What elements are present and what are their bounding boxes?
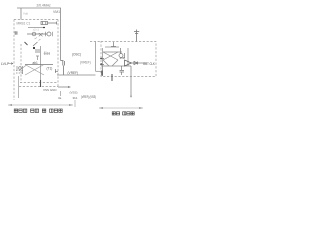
transistor with bubble [119, 48, 125, 58]
wire down to ground left box [18, 76, 20, 98]
left dashed box (voltage reference block) [14, 20, 58, 101]
VDD battery symbol above right box [134, 30, 139, 42]
svg-text:OUT CLK: OUT CLK [143, 62, 155, 66]
top rail VDD wire [17, 8, 61, 61]
component block X1 [41, 22, 57, 25]
svg-text:(VSS): (VSS) [70, 91, 78, 95]
svg-text:ab1: ab1 [33, 61, 39, 65]
svg-text:VM1: VM1 [53, 10, 60, 14]
left edge component marks [100, 59, 104, 77]
wire up to right box [96, 42, 102, 72]
MOS transistor M1 outside box [61, 61, 65, 76]
small T mark above comparator [36, 56, 39, 60]
wire row y27.5 [28, 27, 45, 29]
small transistor arrow mark [25, 42, 28, 45]
right dimension line [99, 107, 143, 109]
svg-text:c2 r1: c2 r1 [33, 28, 39, 32]
svg-text:LVLP: LVLP [1, 62, 10, 66]
svg-text:(VREF): (VREF) [80, 61, 91, 65]
comparator input marks [16, 66, 24, 74]
buffer triangle [125, 60, 132, 66]
cross-coupled X wires [103, 52, 118, 66]
mirror transistor marks mid box [33, 38, 50, 56]
dark junction dot [33, 47, 35, 49]
MOS at left box right edge [55, 69, 58, 73]
wire down from right box to arrow [130, 66, 132, 95]
tick crossing right box bottom [111, 74, 113, 81]
side verticals in right box [103, 48, 129, 66]
svg-text:(OSC): (OSC) [72, 53, 81, 57]
comparator crossing diagonals [20, 65, 44, 76]
svg-text:3a: 3a [58, 96, 62, 100]
diode on output [134, 62, 137, 65]
dashed stub top edge extension [90, 41, 101, 43]
VSS wire segment with arrow [58, 86, 69, 88]
caption 1 (Korean, drawn as glyph blocks) [14, 109, 62, 112]
svg-text:(VREF): (VREF) [68, 71, 79, 75]
svg-text:(VREF),(VSS): (VREF),(VSS) [81, 95, 96, 99]
current source T inside right box [111, 42, 116, 47]
top bar of cross-coupled pair [105, 46, 119, 48]
vertical wire to ground in left box [40, 46, 42, 80]
bottom VREF rail [57, 74, 96, 76]
svg-text:VSS GND: VSS GND [43, 88, 57, 92]
output wire [132, 62, 148, 64]
capacitor at buffer bottom [120, 66, 125, 75]
svg-text:(T1): (T1) [47, 67, 53, 71]
inner dashed line near bottom of left box [20, 82, 58, 84]
oscillator bottom rail [101, 65, 131, 67]
right dashed box (oscillator block) [101, 42, 156, 77]
oscillator rail y52 [103, 51, 122, 53]
svg-text:1/fD: 1/fD [120, 56, 125, 60]
caption 2 (Korean, drawn as glyph blocks) [112, 112, 134, 115]
svg-text:3b1: 3b1 [73, 96, 78, 100]
arrowhead at bottom of wire [130, 96, 132, 98]
wire from block to box edge [48, 22, 58, 25]
left dimension line [8, 100, 75, 107]
inner dashed vertical [20, 44, 22, 83]
comparator top wire [25, 64, 53, 66]
svg-text:MRB1 C1: MRB1 C1 [17, 22, 31, 26]
svg-text:2/0.4MHz: 2/0.4MHz [37, 4, 51, 8]
component row y34 with two circles [15, 31, 53, 36]
svg-text:Vdd: Vdd [23, 12, 28, 16]
